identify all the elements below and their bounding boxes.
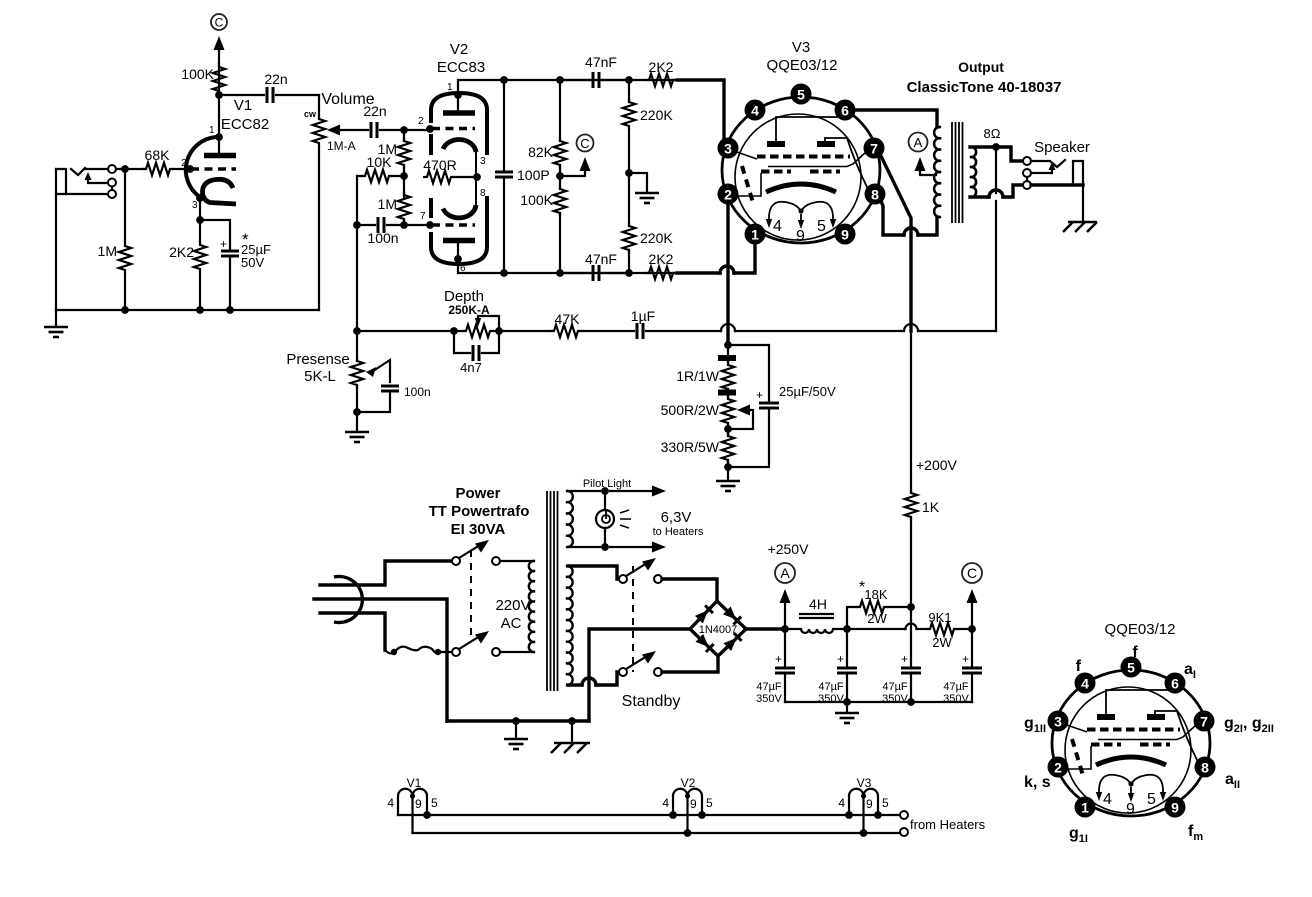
capacitor 1uF (feedback) (582, 330, 634, 332)
capacitor 47nF (top) (560, 79, 590, 81)
power ground rail (447, 719, 589, 722)
wire V3 pin7 screens diagonal (881, 156, 911, 331)
svg-text:+: + (901, 652, 908, 666)
ground (input) (55, 310, 57, 326)
svg-text:1N4007: 1N4007 (699, 624, 738, 636)
wire to ground (629, 173, 647, 192)
switch link dashed (470, 550, 472, 638)
capacitor 47uF/350V no.2 (846, 629, 848, 666)
ground (filter) (846, 702, 848, 712)
svg-text:6: 6 (841, 103, 849, 119)
svg-text:TT Powertrafo: TT Powertrafo (429, 503, 530, 520)
resistor 100K (V2) (554, 185, 566, 217)
svg-text:V3: V3 (792, 39, 810, 56)
node V2 pin7 (426, 221, 434, 229)
wire V3 pin6 to OT top (855, 110, 937, 127)
HT winding (566, 566, 573, 685)
svg-text:5: 5 (797, 87, 805, 103)
mains plug (334, 577, 362, 623)
heater feed terminals (900, 811, 908, 819)
svg-text:ClassicTone 40-18037: ClassicTone 40-18037 (907, 79, 1062, 96)
node cathode chain top (724, 341, 732, 349)
svg-text:9K1: 9K1 (928, 610, 951, 625)
plug pin earth + fuse lead (320, 613, 385, 650)
svg-text:5: 5 (817, 218, 826, 235)
node C supply (968, 625, 976, 633)
screen grid row (757, 155, 850, 159)
anode a2 (817, 141, 835, 147)
svg-text:Speaker: Speaker (1034, 139, 1090, 156)
svg-text:220V: 220V (495, 597, 530, 614)
OT primary winding (934, 110, 941, 217)
node V2 pin1 (454, 91, 462, 99)
plug pin neutral (314, 599, 447, 721)
node V1 grid pin2 (186, 165, 194, 173)
node 8ohm tap (992, 143, 1000, 151)
svg-text:500R/2W: 500R/2W (661, 402, 720, 418)
pin 2 (718, 184, 739, 205)
ground (bias divider) (635, 193, 659, 203)
svg-text:4: 4 (662, 796, 669, 810)
svg-text:47nF: 47nF (585, 251, 617, 267)
wire grid2 node to pin7 (404, 224, 430, 226)
svg-text:+200V: +200V (916, 457, 958, 473)
svg-text:5: 5 (882, 796, 889, 810)
HT top to standby switch (568, 566, 619, 579)
OT primary center tap to A supply (920, 168, 936, 175)
wire jack tip to grid node (85, 168, 108, 170)
svg-text:Power: Power (455, 485, 500, 502)
svg-text:+: + (837, 652, 844, 666)
svg-text:220K: 220K (640, 230, 673, 246)
heater rail lower (413, 832, 901, 834)
svg-text:350V: 350V (943, 693, 969, 705)
svg-text:100n: 100n (367, 230, 398, 246)
svg-text:100K: 100K (181, 66, 214, 82)
capacitor 47uF/350V no.3 (910, 607, 912, 666)
heater V3 (838, 776, 889, 837)
resistor 82K (559, 80, 561, 141)
svg-text:6,3V: 6,3V (661, 509, 692, 526)
wire pin7 to screens (768, 152, 866, 167)
filter ground rail (785, 701, 972, 703)
heater arcs (769, 202, 801, 216)
svg-text:25µF/50V: 25µF/50V (779, 384, 836, 399)
pin 3 (718, 138, 739, 159)
svg-text:350V: 350V (882, 693, 908, 705)
pin 9 (835, 224, 856, 245)
svg-text:k, s: k, s (1024, 774, 1051, 791)
svg-text:f: f (1132, 644, 1138, 661)
svg-text:9: 9 (866, 797, 873, 811)
svg-text:50V: 50V (241, 255, 264, 270)
secondary bottom to speaker, hop over feedback (970, 195, 989, 198)
switch power (upper pole) (452, 557, 460, 565)
svg-text:47K: 47K (555, 311, 581, 327)
svg-text:Output: Output (958, 59, 1004, 75)
svg-text:4H: 4H (809, 596, 827, 612)
svg-text:+: + (962, 652, 969, 666)
svg-text:V1: V1 (234, 97, 252, 114)
capacitor 47uF/350V no.4 (971, 629, 973, 666)
input jack J1 (56, 165, 116, 198)
svg-text:2W: 2W (867, 611, 887, 626)
svg-text:68K: 68K (145, 147, 171, 163)
resistor 47K (feedback) (499, 330, 550, 332)
svg-text:22n: 22n (264, 71, 287, 87)
potentiometer 500R/2W (hum balance) (722, 395, 734, 427)
svg-text:3: 3 (480, 156, 486, 167)
svg-text:9: 9 (796, 228, 805, 245)
diode D3 (696, 634, 709, 647)
diode D4 (724, 638, 737, 651)
supply arrow C (V2) (560, 168, 585, 176)
svg-text:3: 3 (724, 141, 732, 157)
capacitor 100n (tail) (357, 224, 375, 226)
svg-text:QQE03/12: QQE03/12 (1105, 621, 1176, 638)
pin 1 (745, 224, 766, 245)
resistor 9K1/2W (917, 628, 927, 630)
svg-text:2: 2 (724, 187, 732, 203)
wire jack sleeve to chassis ground (1082, 185, 1084, 222)
tube V3 QQE03/12 socket (718, 84, 886, 246)
svg-text:5K-L: 5K-L (304, 368, 336, 385)
svg-text:100n: 100n (404, 385, 431, 399)
power transformer primary (529, 561, 535, 652)
switch power (lower pole) (452, 648, 460, 656)
svg-text:Pilot Light: Pilot Light (583, 478, 631, 490)
node at 68K/1M (121, 165, 129, 173)
svg-text:V2: V2 (450, 41, 468, 58)
capacitor 100P (503, 80, 505, 170)
svg-text:47µF: 47µF (882, 681, 908, 693)
wire hop over cathode line then to V3 pin1 (677, 271, 720, 274)
wire feedback to speaker node with hops (646, 330, 721, 332)
node 82K/100K junction (556, 172, 564, 180)
svg-text:9: 9 (415, 797, 422, 811)
supply arrow C (filter) (971, 601, 973, 629)
wiper arrow Volume (327, 125, 340, 136)
svg-text:10K: 10K (367, 154, 393, 170)
resistor 1M (input) (124, 169, 126, 242)
svg-text:5: 5 (431, 796, 438, 810)
resistor 470R (common cathode) (423, 171, 455, 183)
svg-text:4n7: 4n7 (460, 360, 482, 375)
svg-text:A: A (780, 565, 790, 581)
svg-text:+: + (775, 652, 782, 666)
svg-text:QQE03/12: QQE03/12 (767, 57, 838, 74)
heater rail upper (398, 814, 900, 816)
svg-text:1M-A: 1M-A (327, 139, 356, 153)
svg-text:2W: 2W (932, 635, 952, 650)
svg-text:Presense: Presense (286, 351, 349, 368)
wire feedback line (357, 330, 454, 332)
svg-text:1R/1W: 1R/1W (676, 368, 720, 384)
resistor 10K (357, 175, 362, 177)
capacitor 100n (presence) (381, 386, 399, 391)
wiper Presense (366, 367, 376, 377)
wire to V3 pin3 (677, 80, 724, 140)
svg-text:82K: 82K (528, 144, 554, 160)
resistor 68K (142, 163, 174, 175)
svg-text:1: 1 (751, 227, 759, 243)
svg-text:470R: 470R (423, 157, 456, 173)
svg-text:1M: 1M (378, 196, 397, 212)
heater V2 (662, 776, 713, 837)
bridge minus to ground rail (589, 629, 690, 721)
capacitor 4n7 (across depth) (454, 331, 470, 353)
wire 68K to V1 grid (174, 168, 190, 170)
svg-text:100P: 100P (517, 167, 550, 183)
svg-text:100K: 100K (520, 192, 553, 208)
svg-text:4: 4 (751, 103, 759, 119)
ground rail (input stage) (56, 309, 319, 311)
supply arrow C (V1) (218, 47, 220, 63)
jack sleeve to ground rail (55, 169, 57, 310)
svg-text:1K: 1K (922, 499, 940, 515)
svg-text:18K: 18K (864, 587, 887, 602)
node mid divider (400, 172, 408, 180)
capacitor 47uF/350V no.1 (784, 629, 786, 666)
control grid row (761, 170, 791, 174)
resistor 220K (bottom) (623, 222, 635, 254)
node C symbol (top left) (211, 14, 227, 30)
pilot light circuit (568, 490, 600, 492)
wire V3 pin8 to OT bottom, hop over screen line (881, 201, 904, 235)
svg-text:+: + (756, 388, 763, 402)
bridge rectifier 1N4007 (690, 601, 746, 656)
node +250V (781, 625, 789, 633)
tube V2 ECC83 envelope (431, 93, 487, 264)
svg-text:+: + (220, 237, 227, 251)
svg-text:22n: 22n (363, 103, 386, 119)
jumper bar (718, 390, 736, 396)
wire V3 pin2 cathode down (726, 205, 729, 345)
power transformer core (547, 491, 558, 691)
svg-text:8: 8 (871, 187, 879, 203)
capacitor 47nF (bottom) (560, 272, 590, 274)
svg-text:47nF: 47nF (585, 54, 617, 70)
node depth line start (353, 327, 361, 335)
svg-text:1M: 1M (98, 243, 117, 259)
svg-text:350V: 350V (756, 693, 782, 705)
capacitor 22n (after Volume) (371, 122, 377, 138)
svg-text:8: 8 (480, 188, 486, 199)
svg-text:cw: cw (304, 109, 317, 119)
svg-text:Standby: Standby (622, 693, 681, 710)
svg-text:220K: 220K (640, 107, 673, 123)
chassis ground (power) (571, 721, 573, 743)
ground (presence) (356, 412, 358, 431)
resistor 2K2 (V1 cathode) (199, 220, 201, 242)
svg-text:C: C (580, 136, 589, 151)
resistor 330R/5W (727, 423, 729, 436)
capacitor 25uF/50V (cathode bypass) (728, 345, 769, 401)
wire 10K corner down (356, 176, 358, 331)
svg-text:C: C (215, 16, 224, 30)
svg-text:7: 7 (870, 141, 878, 157)
chassis ground (speaker) (1063, 222, 1097, 232)
triode V2b internals (420, 177, 486, 274)
resistor 2K2 (bottom grid stopper) (645, 267, 677, 279)
svg-text:1µF: 1µF (631, 308, 655, 324)
resistor 1M (lower grid leak) (398, 191, 410, 223)
svg-text:4: 4 (387, 796, 394, 810)
svg-text:47µF: 47µF (818, 681, 844, 693)
svg-text:4: 4 (838, 796, 845, 810)
svg-text:C: C (967, 565, 977, 581)
anode a1 (767, 141, 785, 147)
resistor 100K (V1 plate) (218, 63, 220, 95)
svg-text:EI 30VA: EI 30VA (451, 521, 506, 538)
internal shield dashes (742, 166, 754, 206)
tube pinout QQE03/12 (1048, 657, 1216, 819)
svg-text:1: 1 (209, 125, 215, 136)
plug pin live (320, 561, 452, 585)
svg-text:2K2: 2K2 (649, 251, 674, 267)
svg-text:3: 3 (192, 200, 198, 211)
rail hop over +200V line (847, 628, 906, 630)
node after choke (843, 625, 851, 633)
secondary top to speaker (970, 147, 1023, 161)
node V2 pin2 (426, 125, 434, 133)
triode V1 ECC82 (181, 125, 236, 211)
pin 6 (835, 100, 856, 121)
svg-text:9: 9 (690, 797, 697, 811)
wiper Depth (478, 316, 499, 331)
node V2 pin6 (454, 255, 462, 263)
svg-text:47µF: 47µF (943, 681, 969, 693)
resistor 1M (upper grid leak) (403, 130, 405, 141)
svg-text:47µF: 47µF (756, 681, 782, 693)
resistor 220K (top) (625, 76, 633, 84)
pin 8 (865, 184, 886, 205)
svg-text:2: 2 (181, 158, 187, 169)
pin 7 (864, 138, 885, 159)
svg-text:8Ω: 8Ω (984, 126, 1001, 141)
svg-text:2K2: 2K2 (649, 59, 674, 75)
svg-text:330R/5W: 330R/5W (661, 439, 720, 455)
diode D2 (723, 607, 736, 620)
svg-text:2: 2 (418, 116, 424, 127)
node V1 cathode pin3 (196, 194, 204, 202)
pin 5 (791, 84, 812, 105)
heater V1 (387, 776, 438, 833)
standby link dashed (632, 566, 634, 672)
capacitor 25uF/50V (V1 cathode bypass) (200, 220, 230, 249)
svg-text:ECC83: ECC83 (437, 59, 485, 76)
svg-text:from Heaters: from Heaters (910, 817, 986, 832)
svg-text:A: A (914, 135, 923, 150)
supply arrow A (784, 601, 786, 629)
wire pin2 region (738, 173, 761, 196)
svg-text:2K2: 2K2 (169, 244, 194, 260)
node cathodes junction (473, 173, 481, 181)
svg-text:ECC82: ECC82 (221, 116, 269, 133)
feedback line down from 8ohm node (995, 147, 997, 193)
heater winding 6.3V (566, 491, 573, 547)
pilot lamp (604, 491, 606, 547)
speaker jack (1023, 157, 1083, 189)
svg-text:AC: AC (501, 615, 522, 632)
capacitor 22n (V1 coupling) (219, 94, 264, 96)
ground (power) (515, 721, 517, 738)
HT bottom to standby switch with hop (568, 683, 582, 686)
resistor 2K2 (top grid stopper) (645, 74, 677, 86)
svg-text:9: 9 (841, 227, 849, 243)
diode D1 (695, 610, 708, 623)
wire pin3 to grids (734, 151, 757, 159)
svg-text:5: 5 (706, 796, 713, 810)
jumper bar (718, 355, 736, 361)
wiper 500R (737, 405, 750, 416)
triode V2a internals (418, 82, 486, 177)
heater pin arrows 4 9 5 (768, 216, 770, 220)
potentiometer Presense 5K-L (356, 331, 358, 361)
OT secondary winding (970, 147, 976, 197)
svg-text:+250V: +250V (768, 541, 810, 557)
svg-text:to Heaters: to Heaters (653, 526, 704, 538)
OT core (952, 122, 963, 223)
svg-text:350V: 350V (818, 693, 844, 705)
node grid bias junction (625, 169, 633, 177)
wire cathode down (199, 198, 201, 220)
svg-text:4: 4 (773, 218, 782, 235)
cathode arc (766, 184, 836, 192)
pin 4 (745, 100, 766, 121)
wire top bus (V2 plate a) (458, 80, 724, 95)
potentiometer Volume 1M-A (318, 95, 320, 119)
potentiometer Depth 250K-A (454, 330, 462, 332)
resistor 18K/2W dropper (847, 607, 856, 629)
ground (bias chain) (727, 467, 729, 480)
wire bottom bus (V2 plate b) (458, 259, 718, 273)
fuse F1 (385, 647, 456, 654)
svg-text:7: 7 (420, 211, 426, 222)
svg-text:f: f (1076, 658, 1082, 675)
resistor 1R/1W (727, 345, 729, 365)
bridge plus to filter (746, 627, 785, 630)
svg-text:1: 1 (447, 82, 453, 93)
node V1 plate pin1 (215, 133, 223, 141)
